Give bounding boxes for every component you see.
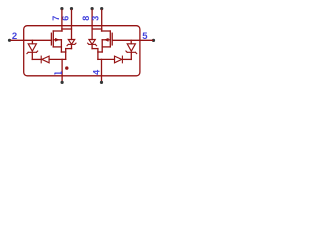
zener diode Z1 cathode lead wire (31, 52, 33, 59)
svg-text:5: 5 (142, 31, 148, 42)
pin 4 wire (101, 59, 103, 81)
wire D2 anode to source node (98, 58, 115, 60)
pin 6 endpoint dot (70, 7, 73, 10)
pin 7 endpoint dot (60, 7, 63, 10)
transistor Q1 gate bar (50, 33, 52, 45)
zener diode Z1 (28, 44, 36, 51)
zener diode Z2 anode stub wire (130, 40, 132, 44)
pin 7 wire (61, 10, 63, 31)
body zener ZB1 (68, 40, 74, 45)
transistor Q1 bulk arrow (55, 38, 59, 41)
pin 2 wire (11, 39, 51, 41)
body zener ZB2 anode lead (91, 44, 93, 48)
wire Z2 to D2 (122, 58, 131, 60)
wire source node vertical (65, 49, 67, 60)
component outline box U1 (24, 26, 140, 76)
wire source jog (61, 51, 65, 53)
pin 8 endpoint dot (91, 7, 94, 10)
transistor Q2 drain wire (102, 30, 111, 32)
body zener ZB2 (89, 40, 95, 45)
svg-text:2: 2 (12, 31, 17, 42)
svg-text:3: 3 (91, 16, 101, 21)
transistor Q2 bulk wire (102, 39, 110, 41)
zener diode Z2 cathode lead wire (130, 52, 132, 59)
pin 1 endpoint dot (61, 81, 64, 84)
transistor Q2 channel bar (109, 31, 111, 47)
pin 1 number label (55, 72, 62, 74)
diode D1 (pointing left) (40, 56, 42, 63)
svg-text:4: 4 (92, 70, 102, 75)
body zener ZB1 anode lead (71, 44, 73, 48)
wire Q1 bulk/source down (60, 40, 62, 52)
svg-text:7: 7 (51, 16, 61, 21)
pin 1 wire (61, 59, 63, 81)
wire Z1 to D1 (32, 58, 41, 60)
transistor Q2 gate bar (111, 33, 113, 45)
zener diode Z2 (127, 44, 135, 51)
pin 3 endpoint dot (100, 7, 103, 10)
pin 5 wire (112, 39, 152, 41)
transistor Q1 channel bar (52, 31, 54, 47)
wire ZB1 to source node (66, 48, 72, 50)
pin 4 endpoint dot (100, 81, 103, 84)
wire pin3 to pin8 rung (92, 28, 102, 30)
pin 5 endpoint dot (152, 39, 155, 42)
svg-text:8: 8 (81, 16, 91, 21)
wire source jog right cell (98, 51, 102, 53)
wire pin7 to pin6 rung (62, 28, 72, 30)
junction dot node S1 (65, 66, 68, 69)
pin 6 wire / body zener ZB1 lead (71, 10, 73, 40)
pin 8 wire / body zener ZB2 lead (91, 10, 93, 40)
pin 2 endpoint dot (8, 39, 11, 42)
wire ZB2 to source node (92, 48, 98, 50)
transistor Q1 bulk wire (53, 39, 61, 41)
transistor Q1 source wire (53, 46, 61, 48)
transistor Q1 drain wire (53, 30, 62, 32)
diode D2 (pointing right) (121, 56, 123, 63)
pin 3 wire (101, 10, 103, 31)
wire Q2 bulk/source down (101, 40, 103, 52)
transistor Q2 source wire (102, 46, 110, 48)
transistor Q2 bulk arrow (105, 38, 109, 41)
wire D1 anode to source node (49, 58, 66, 60)
zener diode Z1 anode stub wire (31, 40, 33, 44)
wire source node vertical right cell (97, 49, 99, 60)
